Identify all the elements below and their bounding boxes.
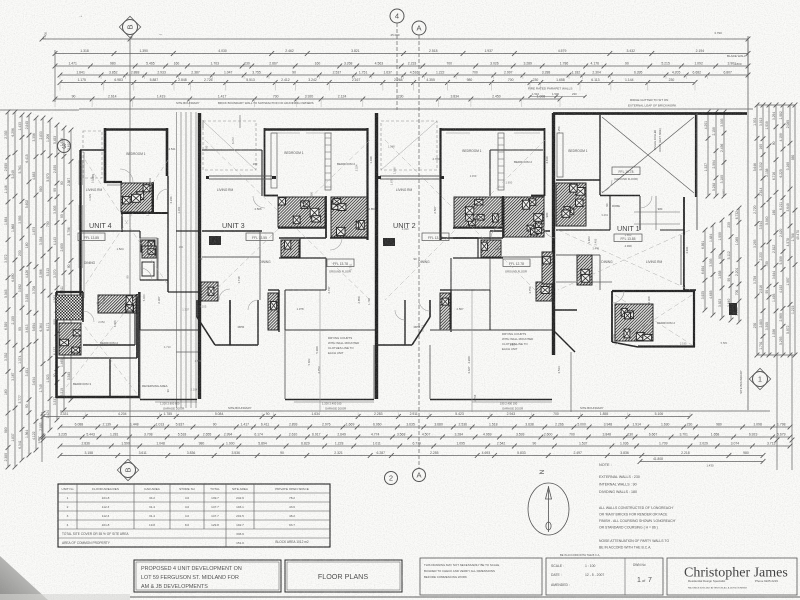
unit 4 labels — [73, 152, 184, 411]
unit 2 court dashed — [381, 121, 437, 170]
left wall window lines — [79, 160, 83, 268]
unit 2 entry cluster — [536, 282, 552, 301]
unit 3 wet cluster B — [331, 197, 367, 237]
unit 1 court lines — [634, 196, 680, 230]
grid marker B bottom — [117, 459, 138, 480]
unit 2 garage — [430, 290, 552, 412]
right dimension block — [701, 39, 800, 470]
interior door arcs and detail lines — [83, 169, 652, 322]
unit 4 lower wet cluster — [98, 295, 136, 313]
left dimension block — [0, 110, 79, 470]
bottom-left corner scan shadow — [0, 556, 48, 600]
unit 2 drying courts note — [502, 332, 533, 351]
unit 3 interior extra — [202, 115, 326, 330]
unit 4 wing walls — [56, 294, 137, 398]
bottom dimension block — [37, 412, 792, 468]
unit 4 robe cluster — [59, 323, 81, 355]
unit 1 court chamfer — [553, 310, 577, 412]
unit 3 living window band — [206, 176, 276, 179]
title block: scale-date box — [546, 558, 663, 595]
driveway strip lines — [176, 112, 199, 408]
unit 1 bedroom 2 wing — [612, 290, 695, 347]
north arrow compass — [528, 469, 569, 535]
grid marker A top — [412, 21, 426, 35]
party wall unit2-unit1 — [552, 113, 555, 355]
grid marker 3 left — [58, 140, 71, 153]
unit 2 walls — [378, 128, 550, 345]
title block: project box — [134, 560, 281, 592]
site boundary top — [79, 108, 753, 110]
unit 1 window band right — [681, 235, 685, 285]
title block: disclaimer box — [420, 558, 542, 595]
unit 4 walls — [56, 128, 168, 398]
unit 4 wet area cluster — [121, 183, 152, 212]
unit 3 kitchen strip — [268, 293, 278, 330]
sheet bottom line — [130, 596, 800, 598]
unit 2 labels — [393, 149, 532, 411]
grid marker A bottom — [413, 469, 426, 482]
unit 1 garage — [600, 115, 696, 197]
unit 3 court dashed — [203, 121, 256, 170]
note text block — [599, 463, 676, 550]
unit 2 kitchen strip — [440, 293, 450, 330]
unit 4 court dashed — [83, 131, 102, 178]
unit 3 wet cluster A — [278, 197, 325, 227]
scattered interior dimension texts — [88, 126, 728, 401]
bedroom robe strips — [271, 133, 563, 190]
unit 1 ffl boxes — [601, 167, 662, 264]
unit 2 living window band — [378, 176, 444, 179]
window sill lines below top wall — [272, 132, 540, 134]
unit 4 stair cluster — [56, 295, 82, 320]
top dimension block — [40, 31, 751, 107]
title block: designer box — [667, 558, 797, 595]
party wall unit4-unit3 — [198, 113, 201, 399]
unit 1 robe cluster — [615, 304, 653, 341]
unit 3 drying courts note — [328, 336, 359, 355]
top block annotations — [78, 13, 746, 108]
area schedule table — [58, 484, 330, 547]
unit 3 entry cluster — [201, 282, 218, 301]
unit 3 garage — [285, 290, 375, 412]
title block: drawing name box — [285, 560, 402, 592]
unit 2 wet cluster A — [454, 197, 502, 227]
section line 4 vertical — [396, 23, 398, 110]
party wall unit3-unit2 — [375, 113, 378, 399]
section line B vertical — [129, 38, 131, 460]
unit 2 interior extra — [451, 150, 545, 330]
grid marker B top — [119, 16, 140, 37]
roof diagonal dashes — [60, 140, 692, 395]
unit 4 garage — [140, 330, 198, 402]
unit 1 interior extra — [542, 195, 684, 290]
unit 1 bedroom 1 — [556, 149, 600, 180]
entry porch marks — [209, 236, 395, 246]
section line A vertical — [418, 35, 420, 468]
unit 1 top blade wall — [553, 112, 747, 115]
grid marker 2 bottom — [385, 472, 398, 485]
grid marker 1 right — [749, 368, 770, 389]
unit 4 interior extra — [81, 152, 198, 330]
grid marker 4 top — [390, 9, 404, 23]
unit 1 right walls — [684, 113, 697, 290]
unit 2 wet cluster B — [504, 197, 544, 237]
site boundary bottom — [60, 410, 770, 412]
unit 3 walls — [197, 128, 368, 345]
unit 3 labels — [217, 151, 355, 411]
unit 1 wet cluster — [556, 183, 586, 226]
unit 4 kitchen — [140, 238, 157, 280]
